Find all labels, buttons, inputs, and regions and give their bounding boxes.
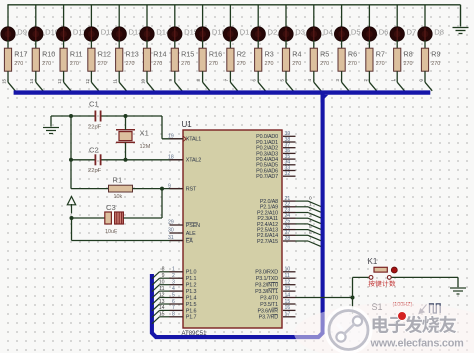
wire: to K1 left contact	[353, 276, 369, 278]
wire: VCC node down to EA	[71, 218, 73, 241]
svg-text:270: 270	[404, 61, 413, 67]
svg-text:6: 6	[252, 78, 257, 81]
wire: LED D11 to resistor R11	[63, 40, 65, 49]
wire: resistor R13 to bus (net 11)	[118, 71, 120, 82]
power +5V (arrow)	[67, 197, 75, 214]
svg-text:0: 0	[418, 78, 423, 81]
junction: RST node	[160, 187, 164, 191]
wire: resistor R12 to bus (net 12)	[90, 71, 92, 82]
pin 32 P0.7/AD7	[256, 171, 295, 180]
svg-text:D3: D3	[295, 28, 305, 37]
junction: C2 at ground rail	[69, 158, 73, 162]
pin 8 P1.7	[170, 312, 197, 321]
svg-text:22pF: 22pF	[88, 168, 102, 174]
wire: resistor R10 to bus (net 14)	[35, 71, 37, 82]
wire: resistor R6 to bus (net 3)	[341, 71, 343, 82]
ground (top right)	[453, 28, 469, 34]
watermark haze	[294, 303, 474, 353]
pin 18 XTAL2	[168, 155, 201, 164]
resistor R17 270	[4, 48, 27, 71]
resistor R16 270	[199, 48, 222, 71]
wire: VCC to C3	[72, 217, 105, 219]
square wave icon	[430, 304, 441, 313]
wire: rail to LED D16	[202, 5, 204, 28]
pin 3 P1.2	[170, 280, 197, 289]
wire: rail to LED D6	[368, 5, 370, 28]
svg-text:P1.5: P1.5	[186, 302, 197, 308]
svg-text:29: 29	[168, 220, 174, 226]
wire: LED D3 to resistor R4	[285, 40, 287, 49]
wire: K1 right contact to ground	[392, 276, 459, 278]
svg-text:11: 11	[113, 78, 118, 83]
wire: rail to C2	[71, 159, 95, 161]
wire: resistor R9 to bus (net 0)	[424, 71, 426, 82]
wire: resistor R11 to bus (net 13)	[63, 71, 65, 82]
svg-text:9: 9	[162, 273, 165, 279]
wire: LED D6 to resistor R7	[368, 40, 370, 49]
LED D9	[1, 27, 27, 41]
svg-text:9: 9	[168, 78, 173, 81]
junction: button node	[351, 296, 355, 300]
svg-text:15: 15	[1, 78, 6, 83]
LED D3	[279, 27, 305, 41]
svg-text:6: 6	[172, 299, 175, 305]
wire: P2.3 to bus net 3	[296, 217, 309, 219]
wire: rail to LED D14	[146, 5, 148, 28]
svg-text:1: 1	[172, 267, 175, 273]
svg-text:2: 2	[172, 273, 175, 279]
svg-text:7: 7	[172, 305, 175, 311]
svg-text:D1: D1	[240, 28, 250, 37]
wire: P2.0 to bus net 0	[296, 200, 309, 202]
pin 23 P2.2/A10	[257, 207, 295, 216]
watermark red dot	[398, 312, 407, 321]
svg-text:270: 270	[153, 61, 162, 67]
wire: bus net 13 to P1.5	[160, 303, 170, 305]
svg-text:270: 270	[42, 61, 51, 67]
wire: resistor R7 to bus (net 2)	[368, 71, 370, 82]
wire: rail to LED D13	[118, 5, 120, 28]
wire: resistor R5 to bus (net 4)	[313, 71, 315, 82]
svg-text:P3.7/RD: P3.7/RD	[259, 315, 279, 321]
svg-text:1: 1	[391, 78, 396, 81]
pin 28 P2.7/A15	[257, 236, 295, 245]
svg-text:R16: R16	[209, 50, 222, 59]
wire: node up to button K1	[352, 277, 354, 297]
resistor R11 270	[60, 48, 83, 71]
resistor R10 270	[32, 48, 55, 71]
wire: rail to LED D5	[341, 5, 343, 28]
svg-text:3: 3	[335, 78, 340, 81]
wire: rail to LED D15	[174, 5, 176, 28]
svg-text:P1.2: P1.2	[186, 283, 197, 289]
pin 34 P0.5/AD5	[256, 160, 295, 169]
wire: LED D9 to resistor R17	[7, 40, 9, 49]
svg-text:P3.5/T1: P3.5/T1	[260, 302, 278, 308]
resistor R12 270	[88, 48, 111, 71]
svg-text:D4: D4	[323, 28, 333, 37]
pin 36 P0.3/AD3	[256, 148, 295, 157]
svg-text:P3.4/T0: P3.4/T0	[260, 295, 278, 301]
svg-text:D6: D6	[379, 28, 389, 37]
wire: rail to LED D11	[63, 5, 65, 28]
wire: RST node down to C3	[161, 189, 163, 218]
svg-text:R8: R8	[404, 50, 413, 59]
svg-text:11: 11	[159, 286, 164, 292]
pin 24 P2.3/A11	[257, 213, 295, 222]
resistor R8 270	[394, 48, 413, 71]
svg-text:8: 8	[172, 312, 175, 318]
LED D7	[390, 27, 416, 41]
svg-text:17: 17	[285, 312, 291, 318]
wire: bus net 9 to P1.1	[160, 277, 170, 279]
svg-text:270: 270	[292, 61, 301, 67]
wire: P2.6 to bus net 6	[296, 234, 309, 236]
svg-text:R1: R1	[113, 176, 123, 185]
pin 1 P1.0	[170, 267, 197, 276]
pin 27 P2.6/A14	[257, 230, 295, 239]
LED D5	[334, 27, 360, 41]
svg-text:D5: D5	[351, 28, 361, 37]
svg-text:P1.1: P1.1	[186, 276, 197, 282]
pin 19 XTAL1	[168, 134, 201, 143]
svg-text:P3.0/RXD: P3.0/RXD	[255, 270, 278, 276]
svg-text:10k: 10k	[114, 194, 123, 200]
pin 22 P2.1/A9	[260, 202, 296, 211]
svg-text:R5: R5	[320, 50, 329, 59]
wire: P2.2 to bus net 2	[296, 212, 309, 214]
svg-text:P1.7: P1.7	[186, 315, 197, 321]
capacitor C3 10uF (electrolytic)	[105, 203, 124, 235]
svg-text:9: 9	[168, 183, 171, 189]
push button K1	[368, 257, 398, 279]
wire: bus net 8 to P1.0	[160, 271, 170, 273]
svg-text:18: 18	[168, 155, 174, 161]
wire: C2 to XTAL2	[101, 159, 183, 161]
pin 4 P1.3	[170, 286, 197, 295]
wire: resistor R3 to bus (net 6)	[257, 71, 259, 82]
LED D13	[112, 27, 142, 41]
wire: rail to LED D10	[35, 5, 37, 28]
svg-text:R15: R15	[181, 50, 194, 59]
wire: to EA pin	[72, 240, 184, 242]
svg-text:www.elecfans.com: www.elecfans.com	[370, 338, 465, 350]
svg-text:P1.0: P1.0	[186, 270, 197, 276]
svg-text:R17: R17	[14, 50, 27, 59]
pin 5 P1.4	[170, 292, 197, 301]
LED D11	[56, 27, 86, 41]
svg-text:R2: R2	[237, 50, 246, 59]
svg-text:R11: R11	[70, 50, 83, 59]
resistor R4 270	[282, 48, 301, 71]
resistor R9 270	[421, 48, 440, 71]
svg-text:XTAL1: XTAL1	[186, 137, 201, 143]
LED D6	[362, 27, 388, 41]
svg-text:P3.3/INT1: P3.3/INT1	[255, 289, 278, 295]
wire: LED D7 to resistor R8	[396, 40, 398, 49]
wire: LED D4 to resistor R5	[313, 40, 315, 49]
svg-text:X1: X1	[140, 129, 149, 138]
pin 12 P3.2/INT0	[255, 280, 295, 289]
pin 7 P1.6	[170, 305, 197, 314]
wire: resistor R15 to bus (net 9)	[174, 71, 176, 82]
bus: top horizontal P-bus	[14, 90, 431, 94]
wire: bus net 14 to P1.6	[160, 309, 170, 311]
LED D8	[418, 27, 444, 41]
LED D14	[140, 27, 170, 41]
ground (left, crystal circuit)	[50, 116, 52, 127]
wire: C1 to XTAL1 node	[101, 115, 162, 117]
pin 14 P3.4/T0	[260, 292, 295, 301]
pin 39 P0.0/AD0	[256, 131, 295, 140]
svg-text:270: 270	[265, 61, 274, 67]
svg-text:2: 2	[363, 78, 368, 81]
svg-text:14: 14	[285, 292, 291, 298]
resistor R6 270	[338, 48, 357, 71]
wire: down to XTAL1	[161, 116, 163, 139]
svg-text:12: 12	[159, 292, 165, 298]
svg-text:10: 10	[285, 267, 291, 273]
svg-text:13: 13	[57, 78, 62, 83]
svg-text:R4: R4	[292, 50, 301, 59]
svg-text:D7: D7	[407, 28, 417, 37]
wire: bus net 12 to P1.4	[160, 297, 170, 299]
wire: LED D1 to resistor R2	[229, 40, 231, 49]
svg-text:AT89C51: AT89C51	[182, 331, 208, 337]
svg-text:5: 5	[172, 292, 175, 298]
svg-text:2: 2	[309, 207, 312, 213]
pin 33 P0.6/AD6	[256, 165, 295, 174]
pin 10 P3.0/RXD	[255, 267, 295, 276]
svg-text:16: 16	[285, 305, 291, 311]
svg-text:P1.4: P1.4	[186, 295, 197, 301]
svg-text:XTAL2: XTAL2	[186, 158, 201, 164]
watermark text	[373, 316, 457, 334]
svg-text:R6: R6	[348, 50, 357, 59]
svg-text:D8: D8	[434, 28, 444, 37]
pin 11 P3.1/TXD	[256, 273, 296, 282]
svg-text:D9: D9	[17, 28, 27, 37]
svg-text:P0.7/AD7: P0.7/AD7	[256, 174, 278, 180]
resistor R14 270	[143, 48, 166, 71]
svg-text:31: 31	[168, 235, 174, 241]
svg-text:270: 270	[209, 61, 218, 67]
svg-text:1: 1	[309, 201, 312, 207]
svg-text:R13: R13	[126, 50, 139, 59]
LED D2	[251, 27, 277, 41]
wire: LED D2 to resistor R3	[257, 40, 259, 49]
svg-text:13: 13	[285, 286, 291, 292]
pin 15 P3.5/T1	[260, 299, 295, 308]
wire: R1 to RST	[133, 188, 184, 190]
wire: rail to R1	[71, 188, 109, 190]
svg-text:P3.2/INT0: P3.2/INT0	[255, 283, 278, 289]
LED D16	[195, 27, 225, 41]
svg-text:R10: R10	[42, 50, 55, 59]
svg-text:7: 7	[309, 236, 312, 242]
svg-text:270: 270	[70, 61, 79, 67]
svg-text:270: 270	[431, 61, 440, 67]
resistor R13 270	[116, 48, 139, 71]
wire: bus net 11 to P1.3	[160, 290, 170, 292]
svg-text:270: 270	[376, 61, 385, 67]
svg-text:15: 15	[285, 299, 291, 305]
svg-text:C3: C3	[106, 203, 116, 212]
junction: crystal bottom node	[124, 158, 128, 162]
wire: down to ground	[457, 277, 459, 287]
svg-text:12M: 12M	[140, 144, 151, 150]
wire: node down to clock S1	[352, 298, 354, 315]
wire: rail to LED D4	[313, 5, 315, 28]
crystal X1 12M	[116, 116, 151, 160]
wire: P2.4 to bus net 4	[296, 223, 309, 225]
svg-text:4: 4	[307, 78, 312, 81]
svg-text:10uF: 10uF	[105, 229, 118, 235]
svg-text:270: 270	[98, 61, 107, 67]
bus: right vertical / bottom / left vertical run	[152, 94, 323, 337]
wire: P3.4 to button node	[296, 297, 353, 299]
wire: rail to LED D7	[396, 5, 398, 28]
wire: resistor R14 to bus (net 10)	[146, 71, 148, 82]
pin 17 P3.7/RD	[259, 312, 296, 321]
svg-text:270: 270	[126, 61, 135, 67]
resistor R3 270	[255, 48, 274, 71]
svg-text:14: 14	[159, 305, 165, 311]
wire: C3 to RST node	[123, 217, 162, 219]
pin 30 ALE	[168, 228, 196, 237]
svg-text:EA: EA	[186, 238, 193, 244]
svg-text:6: 6	[309, 230, 312, 236]
pin 21 P2.0/A8	[260, 196, 296, 205]
resistor R15 270	[171, 48, 194, 71]
svg-text:12: 12	[285, 280, 291, 286]
svg-text:11: 11	[285, 273, 290, 279]
svg-text:270: 270	[181, 61, 190, 67]
wire: resistor R16 to bus (net 8)	[202, 71, 204, 82]
wire: resistor R17 to bus (net 15)	[7, 71, 9, 82]
clock source icon	[419, 305, 427, 314]
pin 38 P0.1/AD1	[256, 137, 295, 146]
wire: into XTAL1 pin	[162, 138, 183, 140]
svg-text:28: 28	[285, 236, 291, 242]
wire: bus net 15 to P1.7	[160, 316, 170, 318]
label: 按键计数	[368, 280, 395, 286]
svg-text:3: 3	[172, 280, 175, 286]
svg-text:22pF: 22pF	[88, 125, 102, 131]
resistor R5 270	[310, 48, 329, 71]
wire: LED D14 to resistor R14	[146, 40, 148, 49]
wire: rail to LED D2	[257, 5, 259, 28]
svg-text:19: 19	[168, 134, 174, 140]
svg-text:270: 270	[320, 61, 329, 67]
svg-text:P3.1/TXD: P3.1/TXD	[256, 276, 278, 282]
capacitor C2 22pF	[88, 146, 102, 175]
wire: rail to LED D9	[7, 5, 9, 28]
svg-text:P2.7/A15: P2.7/A15	[257, 239, 278, 245]
svg-text:7: 7	[224, 78, 229, 81]
pin 35 P0.4/AD4	[256, 154, 295, 163]
wire: LED D8 to resistor R9	[424, 40, 426, 49]
svg-text:3: 3	[309, 213, 312, 219]
pin 26 P2.5/A13	[257, 224, 295, 233]
wire: resistor R4 to bus (net 5)	[285, 71, 287, 82]
svg-text:C2: C2	[89, 146, 99, 155]
LED D15	[168, 27, 198, 41]
wire: LED D16 to resistor R16	[202, 40, 204, 49]
LED D12	[84, 27, 114, 41]
svg-text:13: 13	[159, 299, 165, 305]
wire: rail drop to ground	[460, 5, 462, 27]
junction: crystal top node	[124, 114, 128, 118]
wire: rail to LED D8	[424, 5, 426, 28]
wire: LED D12 to resistor R12	[90, 40, 92, 49]
svg-text:14: 14	[29, 78, 34, 83]
resistor R2 270	[227, 48, 246, 71]
svg-text:C1: C1	[89, 100, 99, 109]
watermark logo circle	[327, 308, 371, 352]
svg-text:R14: R14	[153, 50, 166, 59]
svg-text:R7: R7	[376, 50, 385, 59]
svg-text:12: 12	[85, 78, 90, 83]
svg-text:5: 5	[279, 78, 284, 81]
wire: rail to LED D3	[285, 5, 287, 28]
junction: VCC node at C3	[70, 216, 74, 220]
svg-text:30: 30	[168, 228, 174, 234]
wire: P2.1 to bus net 1	[296, 206, 309, 208]
svg-text:32: 32	[285, 171, 291, 177]
svg-text:P1.6: P1.6	[186, 308, 197, 314]
svg-text:0: 0	[309, 196, 312, 202]
pin 9 RST	[168, 183, 197, 192]
wire: rail to LED D12	[90, 5, 92, 28]
wire: resistor R2 to bus (net 7)	[229, 71, 231, 82]
svg-text:10: 10	[159, 280, 165, 286]
wire: rail to LED D1	[229, 5, 231, 28]
wire: P2.5 to bus net 5	[296, 229, 309, 231]
pin 16 P3.6/WR	[257, 305, 295, 314]
wire: resistor R8 to bus (net 1)	[396, 71, 398, 82]
svg-text:ALE: ALE	[186, 231, 196, 237]
pin 2 P1.1	[170, 273, 197, 282]
wire: top rail	[7, 4, 460, 6]
op-amp-like main IC: U1 AT89C51 body	[183, 130, 282, 328]
wire: LED D10 to resistor R10	[35, 40, 37, 49]
svg-text:15: 15	[159, 312, 165, 318]
pin 37 P0.2/AD2	[256, 143, 295, 152]
svg-text:5: 5	[309, 224, 312, 230]
svg-text:PSEN: PSEN	[186, 223, 200, 229]
svg-text:P1.3: P1.3	[186, 289, 197, 295]
LED D1	[223, 27, 249, 41]
svg-text:4: 4	[172, 286, 175, 292]
pin 25 P2.4/A12	[257, 219, 295, 228]
svg-text:U1: U1	[182, 120, 193, 129]
pin 6 P1.5	[170, 299, 197, 308]
svg-text:RST: RST	[186, 187, 197, 193]
pin XTAL1 clock marker	[183, 136, 186, 141]
LED D10	[29, 27, 59, 41]
pin 31 EA	[168, 235, 193, 244]
wire: ground rail (vertical)	[70, 116, 72, 189]
svg-text:R12: R12	[98, 50, 111, 59]
pin 13 P3.3/INT1	[255, 286, 295, 295]
pin 29 PSEN	[168, 220, 200, 229]
svg-text:8: 8	[196, 78, 201, 81]
svg-text:P3.6/WR: P3.6/WR	[257, 308, 278, 314]
svg-text:R3: R3	[265, 50, 274, 59]
svg-text:270: 270	[237, 61, 246, 67]
svg-text:D2: D2	[268, 28, 278, 37]
